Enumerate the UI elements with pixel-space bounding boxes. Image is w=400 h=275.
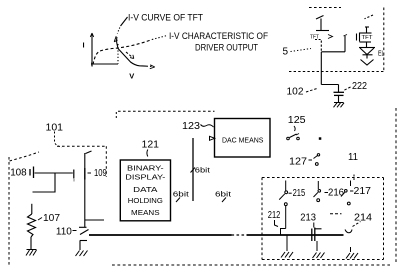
svg-text:222: 222 bbox=[352, 81, 367, 92]
svg-text:215: 215 bbox=[293, 188, 306, 199]
svg-text:123: 123 bbox=[182, 121, 200, 132]
svg-text:107: 107 bbox=[43, 213, 60, 224]
svg-text:214: 214 bbox=[354, 213, 372, 224]
svg-text:I-V CHARACTERISTIC OF: I-V CHARACTERISTIC OF bbox=[169, 31, 268, 41]
svg-text:212: 212 bbox=[268, 210, 281, 221]
svg-text:121: 121 bbox=[142, 139, 160, 150]
svg-text:110: 110 bbox=[56, 227, 72, 238]
svg-text:125: 125 bbox=[288, 115, 306, 126]
svg-text:BINARY-: BINARY- bbox=[127, 164, 164, 173]
svg-text:109: 109 bbox=[94, 168, 107, 179]
svg-text:216: 216 bbox=[328, 187, 344, 198]
svg-text:213: 213 bbox=[300, 213, 316, 224]
svg-text:DRIVER OUTPUT: DRIVER OUTPUT bbox=[195, 42, 258, 52]
svg-text:DISPLAY-: DISPLAY- bbox=[125, 172, 166, 181]
svg-text:5: 5 bbox=[283, 46, 289, 57]
svg-text:EL: EL bbox=[378, 51, 384, 58]
svg-text:DAC MEANS: DAC MEANS bbox=[222, 136, 263, 145]
svg-text:DATA: DATA bbox=[133, 185, 157, 194]
svg-text:TFT: TFT bbox=[310, 34, 320, 40]
svg-text:HOLDING: HOLDING bbox=[128, 196, 163, 205]
svg-text:6bit: 6bit bbox=[173, 190, 190, 199]
svg-text:11: 11 bbox=[348, 152, 358, 163]
svg-text:108: 108 bbox=[10, 167, 27, 178]
svg-text:I: I bbox=[83, 41, 85, 50]
svg-text:6bit: 6bit bbox=[215, 190, 232, 199]
svg-text:I-V CURVE OF TFT: I-V CURVE OF TFT bbox=[128, 12, 203, 22]
svg-text:6bit: 6bit bbox=[195, 165, 211, 174]
svg-text:127: 127 bbox=[289, 157, 307, 168]
svg-text:V: V bbox=[129, 71, 134, 80]
svg-text:101: 101 bbox=[46, 122, 64, 133]
svg-text:TFT: TFT bbox=[362, 35, 374, 41]
svg-text:MEANS: MEANS bbox=[131, 208, 160, 217]
svg-text:102: 102 bbox=[287, 87, 304, 98]
svg-text:217: 217 bbox=[354, 186, 372, 197]
